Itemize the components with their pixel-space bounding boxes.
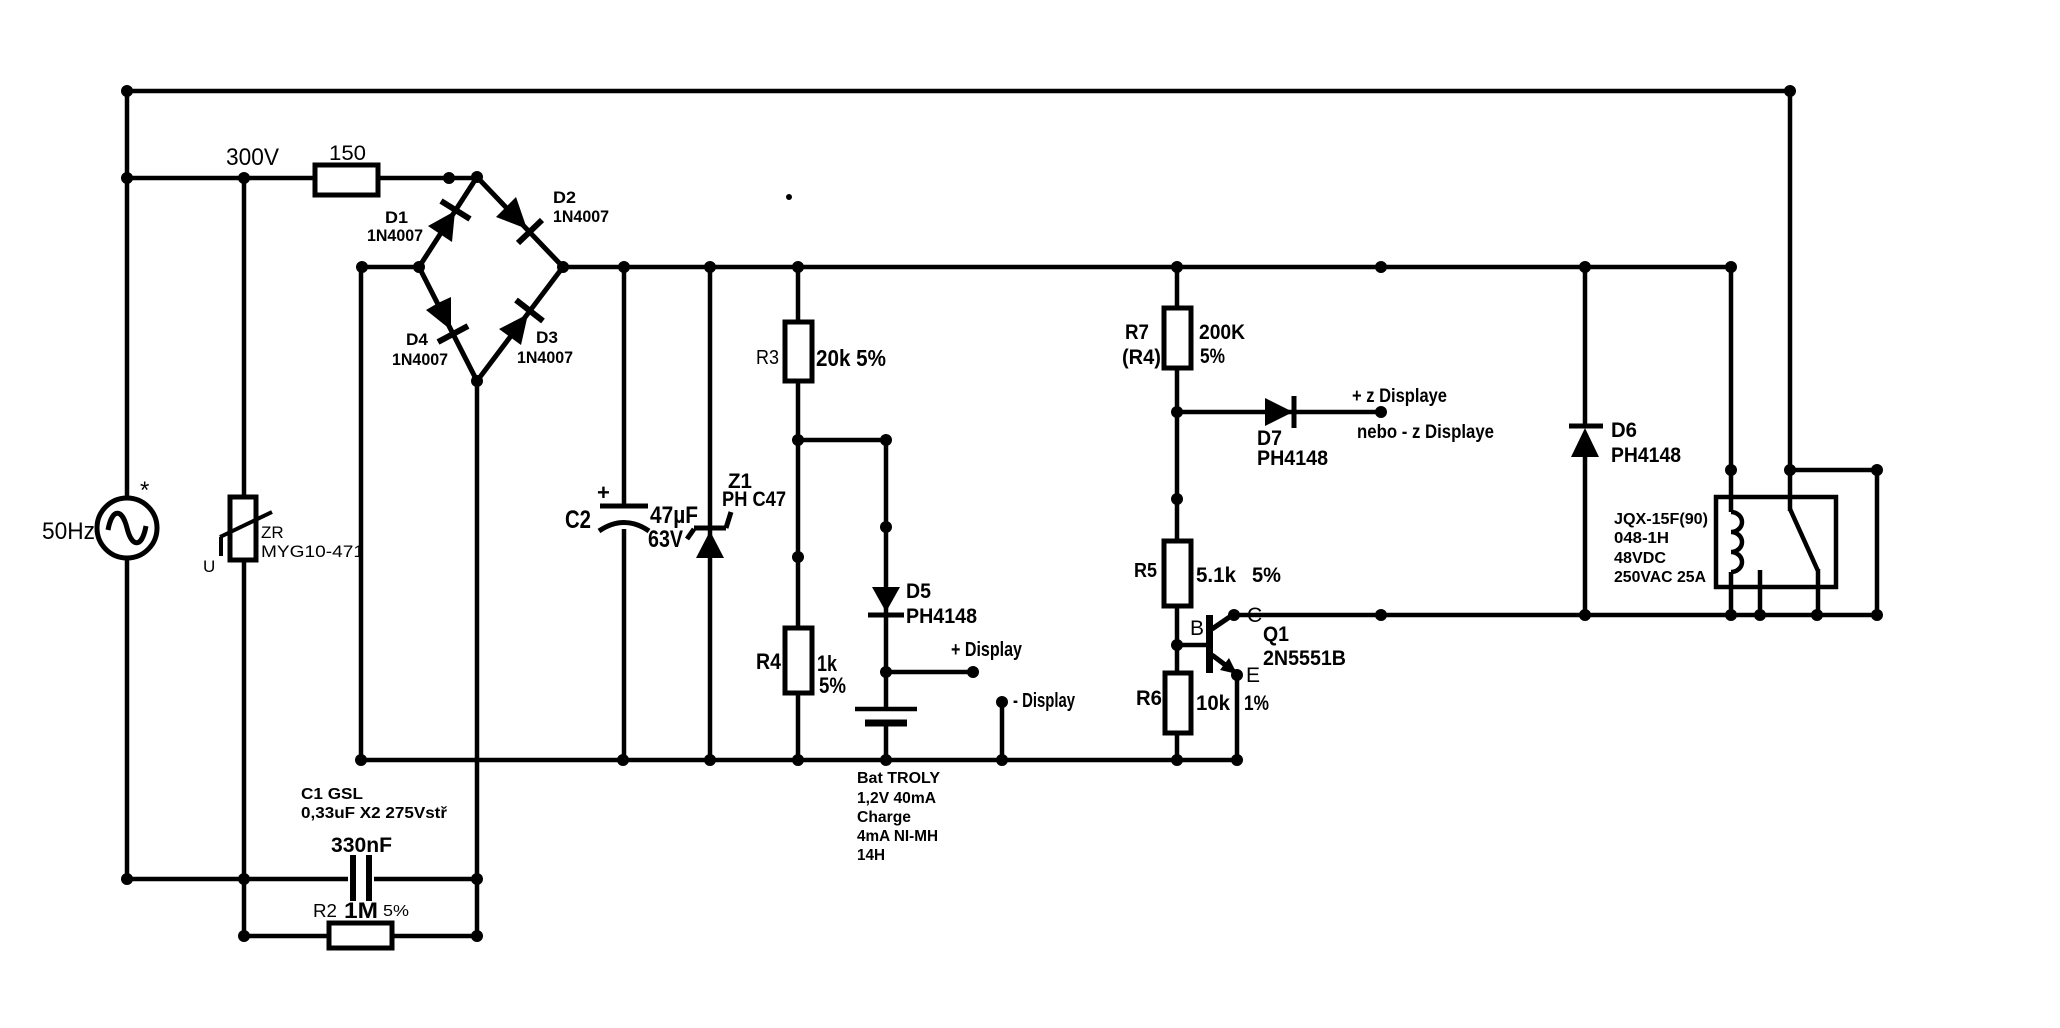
svg-text:R4: R4 xyxy=(756,649,782,674)
svg-text:5%: 5% xyxy=(1252,564,1281,587)
svg-text:C: C xyxy=(1247,604,1262,627)
svg-text:5%: 5% xyxy=(383,903,409,920)
svg-text:C1 GSL: C1 GSL xyxy=(301,786,363,803)
svg-text:C2: C2 xyxy=(565,506,591,534)
svg-text:5.1k: 5.1k xyxy=(1196,564,1236,587)
svg-text:330nF: 330nF xyxy=(331,834,392,857)
svg-text:200K: 200K xyxy=(1199,321,1245,344)
svg-text:D3: D3 xyxy=(536,328,558,347)
svg-text:U: U xyxy=(203,557,215,576)
svg-text:R2: R2 xyxy=(313,901,337,921)
svg-text:Charge: Charge xyxy=(857,809,911,826)
svg-text:48VDC: 48VDC xyxy=(1614,550,1666,567)
svg-text:1M: 1M xyxy=(344,898,378,923)
svg-text:048-1H: 048-1H xyxy=(1614,530,1669,547)
svg-text:1N4007: 1N4007 xyxy=(517,348,573,367)
svg-text:5%: 5% xyxy=(1200,345,1225,368)
svg-text:D5: D5 xyxy=(906,580,931,603)
svg-text:63V: 63V xyxy=(648,526,683,553)
svg-text:20k 5%: 20k 5% xyxy=(816,345,886,371)
svg-text:300V: 300V xyxy=(226,144,279,171)
svg-text:14H: 14H xyxy=(857,847,885,864)
svg-text:D2: D2 xyxy=(553,188,576,207)
svg-text:JQX-15F(90): JQX-15F(90) xyxy=(1614,511,1708,528)
svg-text:1N4007: 1N4007 xyxy=(553,207,609,226)
svg-text:47µF: 47µF xyxy=(650,502,698,529)
svg-text:Q1: Q1 xyxy=(1263,623,1289,646)
svg-text:B: B xyxy=(1190,617,1204,640)
svg-text:4mA NI-MH: 4mA NI-MH xyxy=(857,828,938,845)
svg-text:2N5551B: 2N5551B xyxy=(1263,647,1346,670)
svg-text:+ z Displaye: + z Displaye xyxy=(1352,386,1447,407)
svg-text:+: + xyxy=(597,480,610,505)
svg-text:PH4148: PH4148 xyxy=(1257,447,1328,470)
svg-text:50Hz: 50Hz xyxy=(42,518,95,545)
svg-text:10k: 10k xyxy=(1196,692,1230,715)
svg-text:Bat TROLY: Bat TROLY xyxy=(857,770,940,787)
svg-text:1N4007: 1N4007 xyxy=(367,226,423,245)
svg-text:PH4148: PH4148 xyxy=(1611,444,1681,467)
svg-text:nebo - z Displaye: nebo - z Displaye xyxy=(1357,422,1494,443)
svg-text:*: * xyxy=(140,477,149,504)
svg-text:1N4007: 1N4007 xyxy=(392,350,448,369)
svg-text:R5: R5 xyxy=(1134,560,1157,582)
svg-text:D6: D6 xyxy=(1611,419,1637,442)
svg-text:PH4148: PH4148 xyxy=(906,605,977,628)
svg-text:R3: R3 xyxy=(756,347,779,369)
svg-text:R6: R6 xyxy=(1136,687,1162,710)
svg-text:PH C47: PH C47 xyxy=(722,488,786,511)
svg-text:E: E xyxy=(1246,664,1260,687)
svg-text:5%: 5% xyxy=(819,673,846,698)
svg-text:(R4): (R4) xyxy=(1122,346,1161,369)
svg-text:1,2V 40mA: 1,2V 40mA xyxy=(857,790,936,807)
svg-text:1%: 1% xyxy=(1244,692,1269,715)
svg-text:+ Display: + Display xyxy=(951,639,1023,661)
svg-text:0,33uF X2 275Vstř: 0,33uF X2 275Vstř xyxy=(301,805,448,822)
svg-text:MYG10-471: MYG10-471 xyxy=(261,542,364,561)
svg-text:150: 150 xyxy=(329,142,366,165)
svg-text:- Display: - Display xyxy=(1013,690,1076,712)
svg-text:250VAC 25A: 250VAC 25A xyxy=(1614,569,1706,586)
svg-text:D1: D1 xyxy=(385,208,408,227)
svg-text:ZR: ZR xyxy=(261,523,284,542)
svg-text:D4: D4 xyxy=(406,330,429,349)
svg-text:R7: R7 xyxy=(1125,321,1149,344)
